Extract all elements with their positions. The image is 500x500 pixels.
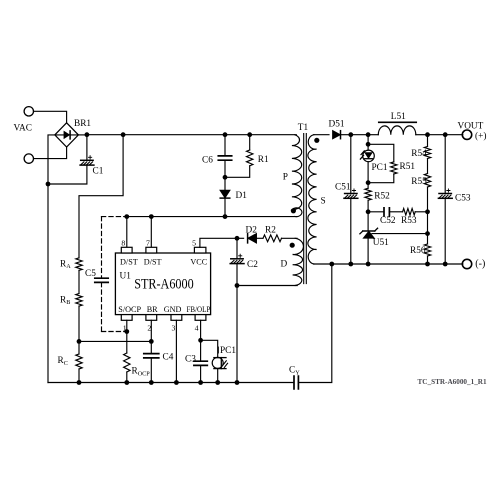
svg-text:T1: T1: [298, 123, 309, 133]
wire secondary rail: [314, 263, 463, 265]
transformer T1 core: [304, 134, 307, 284]
node pin7 tap: [149, 214, 154, 219]
capacitor C3: [194, 340, 207, 382]
pin number 5: [192, 239, 196, 248]
wire C52 to R53: [389, 211, 402, 213]
wire pin8 up: [126, 217, 128, 248]
label L51: [391, 112, 406, 122]
wire aux to rail: [236, 286, 238, 383]
wire bridge right vertex to rail: [78, 134, 87, 136]
label minus: [475, 259, 485, 270]
wire secondary top rail: [314, 134, 329, 136]
node R52 top: [366, 180, 371, 185]
svg-text:D/ST: D/ST: [144, 258, 162, 267]
label U51: [373, 238, 389, 248]
svg-text:TC_STR-A6000_1_R1: TC_STR-A6000_1_R1: [418, 378, 487, 386]
resistor R2: [263, 235, 282, 242]
svg-text:C2: C2: [247, 260, 258, 270]
wire pin2 down: [150, 320, 152, 353]
label STR-A6000: [134, 276, 194, 292]
wire L51 to R54: [416, 134, 428, 136]
label plus: [475, 131, 486, 142]
wire C52 node to U51: [367, 212, 369, 231]
svg-text:VAC: VAC: [14, 123, 32, 133]
wire BR sense: [79, 340, 151, 342]
label C51: [335, 182, 351, 192]
wire U51 to rail: [367, 238, 369, 264]
pin number 1: [123, 324, 127, 333]
wire pin5 up: [200, 238, 237, 247]
pin label S/OCP: [118, 305, 141, 314]
label C2: [247, 260, 258, 270]
pin number 3: [172, 324, 176, 333]
svg-text:ROCP: ROCP: [132, 367, 151, 378]
U1 pin 4 lead: [195, 315, 206, 321]
pin label VCC: [190, 258, 207, 267]
svg-text:BR1: BR1: [74, 119, 91, 129]
dashed link top: [102, 216, 127, 218]
wire bottom rail: [48, 382, 294, 384]
node aux at rail: [235, 380, 240, 385]
svg-text:R54: R54: [411, 149, 427, 159]
wire main top rail: [87, 134, 296, 136]
U1 pin 3 lead: [171, 315, 182, 321]
resistor R55: [424, 174, 430, 188]
wire rail to PC1 branch: [351, 134, 368, 136]
svg-text:R55: R55: [411, 177, 427, 187]
label RA: [60, 259, 71, 270]
label U1: [120, 272, 132, 282]
svg-text:U1: U1: [120, 272, 132, 282]
wire LED to R52: [367, 162, 369, 189]
label drawing code: [418, 378, 487, 386]
svg-text:C1: C1: [93, 167, 104, 177]
label D1: [236, 191, 248, 201]
node C52 left: [366, 209, 371, 214]
U1 pin 7 lead: [146, 247, 157, 253]
U1 pin 8 lead: [121, 247, 132, 253]
label CY: [289, 366, 300, 377]
resistor R53: [403, 209, 416, 216]
label C52: [380, 216, 396, 226]
wire PC1 emitter to rail: [217, 369, 219, 383]
svg-text:R53: R53: [401, 216, 417, 226]
terminal VAC line1: [24, 107, 33, 116]
svg-text:S/OCP: S/OCP: [118, 305, 141, 314]
wire left vertical to bottom rail: [47, 184, 49, 383]
wire RA to RB: [78, 270, 80, 293]
svg-text:C52: C52: [380, 216, 396, 226]
capacitor C5: [95, 278, 108, 282]
svg-text:GND: GND: [164, 305, 182, 314]
pin number 4: [195, 324, 199, 333]
inductor L51: [378, 122, 416, 134]
svg-text:D2: D2: [246, 226, 258, 236]
label VOUT: [458, 121, 484, 131]
node R54 top: [425, 132, 430, 137]
svg-text:VCC: VCC: [190, 258, 207, 267]
wire pin7 up: [150, 217, 152, 248]
node divider C52 tap: [425, 209, 430, 214]
node D polarity dot: [290, 243, 295, 248]
pin number 8: [121, 239, 125, 248]
node BR sense at C4: [149, 339, 154, 344]
wire pin3 GND down: [175, 320, 177, 382]
node C53 top: [443, 132, 448, 137]
node GND bottom: [174, 380, 179, 385]
label D: [281, 259, 288, 269]
svg-text:RA: RA: [60, 259, 71, 270]
node pin4 FB: [198, 338, 203, 343]
node C6 R1 junction: [223, 175, 228, 180]
inductor T1 primary P: [292, 135, 302, 217]
svg-text:R1: R1: [258, 155, 269, 165]
svg-text:D51: D51: [329, 120, 345, 130]
wire FB to PC1: [201, 340, 218, 357]
label RC: [58, 356, 68, 367]
node S polarity dot: [314, 138, 319, 143]
label P: [283, 172, 288, 182]
node bridge negative / C1 return: [46, 182, 51, 187]
dashed link bottom: [102, 331, 127, 333]
pin label BR: [147, 305, 158, 314]
wire R51 branch: [368, 144, 394, 162]
svg-text:C5: C5: [85, 269, 96, 279]
label R53: [401, 216, 417, 226]
node RB bottom: [77, 339, 82, 344]
svg-text:C4: C4: [163, 352, 174, 362]
wire CY to secondary: [298, 264, 331, 383]
wire rail to L51: [368, 134, 378, 136]
diode D1: [220, 177, 230, 216]
node C1 top: [85, 132, 90, 137]
pin label FB/OLP: [187, 305, 211, 314]
node C2 bottom: [235, 283, 240, 288]
diode D2: [237, 234, 263, 243]
wire R51 bottom: [368, 174, 394, 183]
terminal VOUT minus: [462, 259, 471, 268]
svg-text:STR-A6000: STR-A6000: [134, 276, 194, 292]
wire C52 link: [368, 211, 384, 213]
node PC1 bottom: [215, 380, 220, 385]
label C4: [163, 352, 174, 362]
svg-text:VOUT: VOUT: [458, 121, 484, 131]
bridge rectifier BR1: [55, 123, 79, 147]
svg-text:C53: C53: [455, 194, 471, 204]
resistor R51: [391, 162, 397, 174]
svg-text:R2: R2: [265, 226, 276, 236]
resistor R1: [225, 135, 253, 178]
wire line2 to bridge bottom: [34, 148, 67, 159]
pin label D/ST 7: [144, 258, 162, 267]
node PC1 branch top: [366, 132, 371, 137]
wire to C53 top: [428, 134, 446, 136]
svg-text:4: 4: [195, 324, 199, 333]
resistor R56: [424, 234, 430, 256]
capacitor C51: [344, 135, 358, 264]
capacitor C52: [384, 208, 389, 216]
node C6 top: [223, 132, 228, 137]
node ROCP bottom: [124, 380, 129, 385]
svg-text:P: P: [283, 172, 288, 182]
svg-text:D: D: [281, 259, 288, 269]
terminal VAC line2: [24, 154, 33, 163]
resistor R54: [424, 135, 430, 159]
dashed C5 drop: [101, 217, 103, 332]
node VCC aux: [235, 236, 240, 241]
label D51: [329, 120, 345, 130]
node C51 bottom: [348, 262, 353, 267]
node pin1 dashed: [124, 329, 129, 334]
inductor T1 auxiliary D: [293, 238, 304, 285]
wire R53 to divider: [415, 211, 427, 213]
svg-text:RB: RB: [60, 295, 70, 306]
transistor PC1 photo side: [212, 347, 227, 369]
wire RC to rail: [78, 369, 80, 383]
svg-text:PC1: PC1: [220, 346, 236, 356]
label BR1: [74, 119, 91, 129]
wire divider mid: [427, 212, 429, 234]
node secondary gnd link: [329, 262, 334, 267]
svg-text:C3: C3: [185, 355, 196, 365]
label R55: [411, 177, 427, 187]
wire R54 R55: [427, 159, 429, 174]
wire U51 ref: [372, 233, 428, 235]
label ROCP: [132, 367, 151, 378]
svg-text:7: 7: [146, 239, 150, 248]
node D1 to DST line: [223, 214, 228, 219]
label R1: [258, 155, 269, 165]
U1 pin 5 lead: [194, 247, 206, 253]
inductor T1 secondary S: [308, 135, 317, 264]
wire DST line: [127, 216, 296, 218]
capacitor CY: [294, 376, 298, 389]
capacitor C53: [438, 135, 452, 264]
wire pin1 down: [126, 320, 128, 353]
svg-text:FB/OLP: FB/OLP: [187, 305, 211, 314]
svg-text:(-): (-): [475, 259, 485, 270]
wire startup jog: [79, 135, 123, 258]
diode D51: [333, 131, 351, 139]
resistor RB: [76, 294, 82, 307]
terminal VOUT plus: [462, 130, 471, 139]
label R54: [411, 149, 427, 159]
svg-text:(+): (+): [475, 131, 486, 142]
svg-text:D/ST: D/ST: [120, 258, 138, 267]
U1 pin 1 lead: [121, 315, 132, 321]
label R52: [374, 192, 390, 202]
label D2: [246, 226, 258, 236]
diode U51 shunt regulator: [360, 228, 378, 238]
wire PC1 branch upper: [367, 135, 369, 151]
svg-text:PC1: PC1: [372, 163, 388, 173]
node P polarity dot: [291, 208, 296, 213]
node divider ref tap: [425, 231, 430, 236]
svg-text:CY: CY: [289, 366, 300, 377]
svg-text:S: S: [321, 197, 326, 207]
label S: [321, 197, 326, 207]
wire bridge left vertex down: [48, 135, 55, 184]
label R51: [400, 162, 416, 172]
node U51 bottom: [366, 262, 371, 267]
wire R52 to C52 node: [367, 200, 369, 212]
U1 pin 2 lead: [146, 315, 157, 321]
label T1: [298, 123, 309, 133]
op-amp U1 body: [115, 253, 210, 315]
label PC1 photo: [220, 346, 236, 356]
label VAC: [14, 123, 32, 133]
label R56: [410, 246, 426, 256]
wire R2 to winding: [282, 237, 298, 239]
node R51 tap: [366, 142, 371, 147]
label RB: [60, 295, 70, 306]
svg-text:U51: U51: [373, 238, 389, 248]
node R1 top: [247, 132, 252, 137]
wire to VOUT plus: [445, 134, 463, 136]
wire RB to node: [78, 306, 80, 341]
capacitor C2: [230, 238, 244, 285]
wire aux return: [237, 285, 297, 287]
label C6: [202, 155, 213, 165]
wire R56 to rail: [427, 256, 429, 264]
label C1: [93, 167, 104, 177]
node C4 bottom: [149, 380, 154, 385]
svg-text:R51: R51: [400, 162, 416, 172]
wire line1 to bridge top: [34, 111, 67, 122]
node C51 top: [348, 132, 353, 137]
label C5: [85, 269, 96, 279]
label C53: [455, 194, 471, 204]
svg-text:C6: C6: [202, 155, 213, 165]
resistor RA: [76, 258, 82, 271]
wire R55 down: [427, 187, 429, 212]
resistor RC: [76, 341, 82, 369]
wire ROCP to rail: [126, 372, 128, 383]
node C53 bottom: [443, 262, 448, 267]
label R2: [265, 226, 276, 236]
svg-text:3: 3: [172, 324, 176, 333]
svg-text:1: 1: [123, 324, 127, 333]
svg-text:BR: BR: [147, 305, 158, 314]
node startup tap: [121, 132, 126, 137]
svg-text:L51: L51: [391, 112, 406, 122]
capacitor C6: [218, 135, 231, 178]
capacitor C4: [144, 354, 159, 383]
label C3: [185, 355, 196, 365]
diode PC1 LED: [360, 150, 374, 162]
svg-text:RC: RC: [58, 356, 68, 367]
node C3 bottom: [198, 380, 203, 385]
node R56 bottom: [425, 262, 430, 267]
svg-text:8: 8: [121, 239, 125, 248]
node RC bottom: [77, 380, 82, 385]
resistor R52: [365, 188, 371, 200]
wire pin4 down: [200, 320, 202, 340]
pin number 7: [146, 239, 150, 248]
pin label GND: [164, 305, 182, 314]
capacitor C1: [49, 135, 94, 184]
pin number 2: [147, 324, 151, 333]
node pin8 tap: [124, 214, 129, 219]
resistor ROCP: [124, 353, 130, 372]
svg-text:R52: R52: [374, 192, 390, 202]
svg-text:C51: C51: [335, 182, 351, 192]
svg-text:R56: R56: [410, 246, 426, 256]
label PC1 LED: [372, 163, 388, 173]
pin label D/ST 8: [120, 258, 138, 267]
svg-text:D1: D1: [236, 191, 248, 201]
svg-text:5: 5: [192, 239, 196, 248]
